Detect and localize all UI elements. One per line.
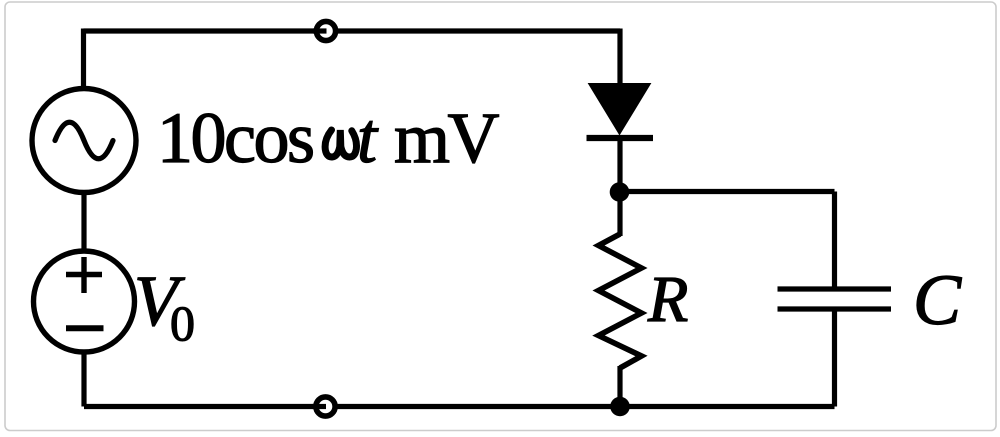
DC source V0 circle	[34, 251, 135, 352]
wire between sources	[81, 192, 86, 252]
wire diode branch top	[617, 29, 622, 87]
wire capacitor branch bottom	[832, 309, 837, 407]
svg-text:0: 0	[170, 295, 195, 351]
label omega	[325, 130, 356, 157]
terminal a (top open circle)	[313, 21, 336, 40]
resistor R zigzag	[599, 234, 642, 368]
AC sine symbol	[55, 122, 113, 159]
wire diode to node	[617, 138, 622, 192]
svg-text:C: C	[913, 260, 962, 340]
diode cathode bar	[587, 135, 654, 141]
svg-text:mV: mV	[394, 98, 500, 178]
svg-text:t: t	[357, 98, 379, 178]
svg-text:10cos: 10cos	[157, 98, 313, 178]
wire node to resistor	[617, 192, 622, 236]
wire capacitor branch top	[832, 192, 837, 290]
node junction dot (diode/resistor/capacitor)	[610, 182, 630, 202]
AC source circle	[32, 89, 136, 193]
capacitor C top plate	[778, 286, 892, 291]
minus sign	[66, 325, 104, 331]
wire bottom (left corner to capacitor branch)	[84, 404, 835, 409]
wire top (node a to diode branch)	[84, 28, 621, 33]
diode D1 triangle	[589, 84, 651, 135]
wire node to capacitor branch	[620, 189, 835, 194]
wire resistor to bottom node	[617, 366, 622, 407]
capacitor C bottom plate	[778, 306, 892, 311]
terminal b (bottom open circle)	[313, 397, 336, 416]
plus sign	[66, 257, 102, 293]
bottom node junction dot	[610, 397, 630, 417]
svg-text:R: R	[647, 263, 688, 336]
wire left branch top	[81, 29, 86, 91]
wire left branch bottom	[81, 350, 86, 407]
